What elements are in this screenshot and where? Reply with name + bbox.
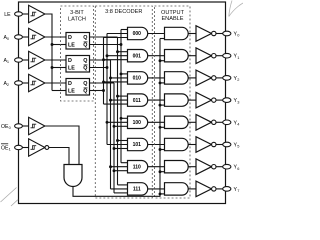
svg-text:D: D [68, 81, 72, 87]
buffer U1 (LE) [29, 5, 45, 22]
svg-text:2: 2 [237, 77, 239, 82]
wire enable gate 3 to inverter [188, 99, 196, 101]
svg-text:000: 000 [133, 31, 142, 37]
net Q0 bus [117, 37, 119, 185]
enable rail stub row 2 [160, 82, 165, 84]
enable AND gate row 2 [165, 72, 189, 84]
output inverter Y7 [196, 181, 212, 197]
wire enable feed [73, 39, 160, 197]
svg-text:Q: Q [83, 81, 87, 87]
OUTPUT ENABLE section box [155, 6, 191, 198]
enable AND gate row 7 [165, 183, 189, 195]
svg-text:3: 3 [237, 99, 239, 104]
wire A1 to latch D [45, 59, 66, 61]
IC outline [19, 2, 226, 204]
enable rail stub row 3 [160, 104, 165, 106]
decoder AND gate 101 [128, 138, 148, 150]
svg-text:001: 001 [133, 53, 142, 59]
svg-text:100: 100 [133, 120, 142, 126]
svg-text:Q: Q [83, 35, 87, 41]
svg-text:D: D [68, 58, 72, 64]
svg-text:111: 111 [133, 187, 141, 193]
wire LE to latch3 [52, 90, 66, 92]
svg-text:110: 110 [133, 164, 141, 170]
wire enable gate 1 to inverter [188, 55, 196, 57]
output inverter Y6 [196, 159, 212, 175]
svg-text:101: 101 [133, 142, 142, 148]
net Q2bar bus [103, 38, 105, 105]
wire decoder 011 to enable gate [148, 99, 165, 101]
wire A0 to latch D [45, 36, 66, 38]
enable AND gate row 6 [165, 161, 189, 173]
junction LE latch1 [51, 43, 54, 46]
output pin Y4 [216, 121, 223, 123]
net Q1 bus [110, 60, 112, 189]
decoder AND gate 100 [128, 116, 148, 128]
wire enable gate 4 to inverter [188, 121, 196, 123]
svg-text:011: 011 [133, 98, 141, 104]
enable AND gate [64, 165, 82, 187]
enable AND gate row 3 [165, 94, 189, 106]
output pin Y5 [216, 144, 223, 146]
wire decoder 111 to enable gate [148, 188, 165, 190]
enable AND gate row 0 [165, 27, 189, 39]
svg-text:2: 2 [7, 82, 9, 87]
svg-text:LE: LE [68, 89, 75, 95]
wire enable gate 0 to inverter [188, 33, 196, 35]
3:8 DECODER section box [95, 6, 152, 198]
wire LE bus [45, 14, 52, 91]
enable rail stub row 7 [160, 193, 165, 195]
svg-text:3-BIT: 3-BIT [70, 10, 84, 16]
output pin Y7 [216, 188, 223, 190]
wire LE to latch2 [52, 67, 66, 69]
wire decoder 001 to enable gate [148, 55, 165, 57]
output pin Y0 [216, 33, 223, 35]
svg-text:Q: Q [83, 66, 87, 72]
wire enable gate 5 to inverter [188, 144, 196, 146]
decoder AND gate 000 [128, 27, 148, 39]
input pin OE1 (active low) [1, 143, 8, 145]
wire OE0 to enable AND [45, 126, 79, 165]
latch cell 3 (A2) [66, 79, 90, 96]
svg-text:Q: Q [83, 58, 87, 64]
svg-text:6: 6 [237, 166, 239, 171]
svg-text:LE: LE [68, 43, 75, 49]
enable rail stub row 4 [160, 126, 165, 128]
wire LE to latch1 [52, 44, 66, 46]
junction LE latch2 [51, 66, 54, 69]
output pin Y6 [216, 166, 223, 168]
svg-text:7: 7 [237, 188, 239, 193]
svg-text:LE: LE [4, 12, 11, 18]
inverting buffer U6 (OE1) [29, 139, 45, 156]
enable AND gate row 4 [165, 116, 189, 128]
net Q2 bus [113, 83, 115, 193]
net Q0bar bus [120, 30, 122, 163]
wire enable gate 6 to inverter [188, 166, 196, 168]
svg-text:LATCH: LATCH [68, 17, 86, 23]
svg-text:ENABLE: ENABLE [161, 16, 183, 22]
wire enable gate 7 to inverter [188, 188, 196, 190]
net Q1bar bus [106, 34, 108, 145]
svg-text:3:8 DECODER: 3:8 DECODER [105, 9, 142, 15]
output inverter Y1 [196, 48, 212, 64]
wire enable gate 2 to inverter [188, 77, 196, 79]
enable rail stub row 5 [160, 149, 165, 151]
svg-text:LE: LE [68, 66, 75, 72]
buffer U3 (A1) [29, 51, 45, 68]
decoder AND gate 011 [128, 94, 148, 106]
output inverter Y2 [196, 70, 212, 86]
svg-text:D: D [68, 35, 72, 41]
svg-text:1: 1 [237, 55, 239, 60]
output inverter Y4 [196, 115, 212, 131]
3-BIT LATCH section box [61, 6, 94, 101]
decoder AND gate 001 [128, 50, 148, 62]
enable AND gate row 5 [165, 138, 189, 150]
buffer U2 (A0) [29, 28, 45, 45]
output pin Y1 [216, 55, 223, 57]
decoder AND gate 010 [128, 72, 148, 84]
decoder AND gate 111 [128, 183, 148, 195]
svg-text:Q: Q [83, 43, 87, 49]
wire decoder 110 to enable gate [148, 166, 165, 168]
wire decoder 100 to enable gate [148, 121, 165, 123]
enable rail stub row 1 [160, 60, 165, 62]
svg-text:5: 5 [237, 144, 239, 149]
wire decoder 010 to enable gate [148, 77, 165, 79]
wire decoder 101 to enable gate [148, 144, 165, 146]
latch cell 2 (A1) [66, 56, 90, 73]
output inverter Y3 [196, 92, 212, 108]
wire A2 to latch D [45, 82, 66, 84]
svg-text:1: 1 [7, 59, 9, 64]
output pin Y3 [216, 99, 223, 101]
wire decoder 000 to enable gate [148, 33, 165, 35]
enable AND gate row 1 [165, 50, 189, 62]
enable rail stub row 0 [160, 38, 165, 40]
decoder AND gate 110 [128, 161, 148, 173]
svg-text:1: 1 [9, 147, 11, 152]
svg-text:OUTPUT: OUTPUT [161, 10, 185, 16]
buffer U5 (OE0) [29, 117, 45, 134]
svg-text:010: 010 [133, 76, 142, 82]
output pin Y2 [216, 77, 223, 79]
svg-text:Q: Q [83, 89, 87, 95]
buffer U4 (A2) [29, 74, 45, 91]
enable rail stub row 6 [160, 171, 165, 173]
latch cell 1 (A0) [66, 33, 90, 50]
output inverter Y0 [196, 26, 212, 42]
wire OE1 to enable AND [49, 148, 69, 165]
output inverter Y5 [196, 137, 212, 153]
